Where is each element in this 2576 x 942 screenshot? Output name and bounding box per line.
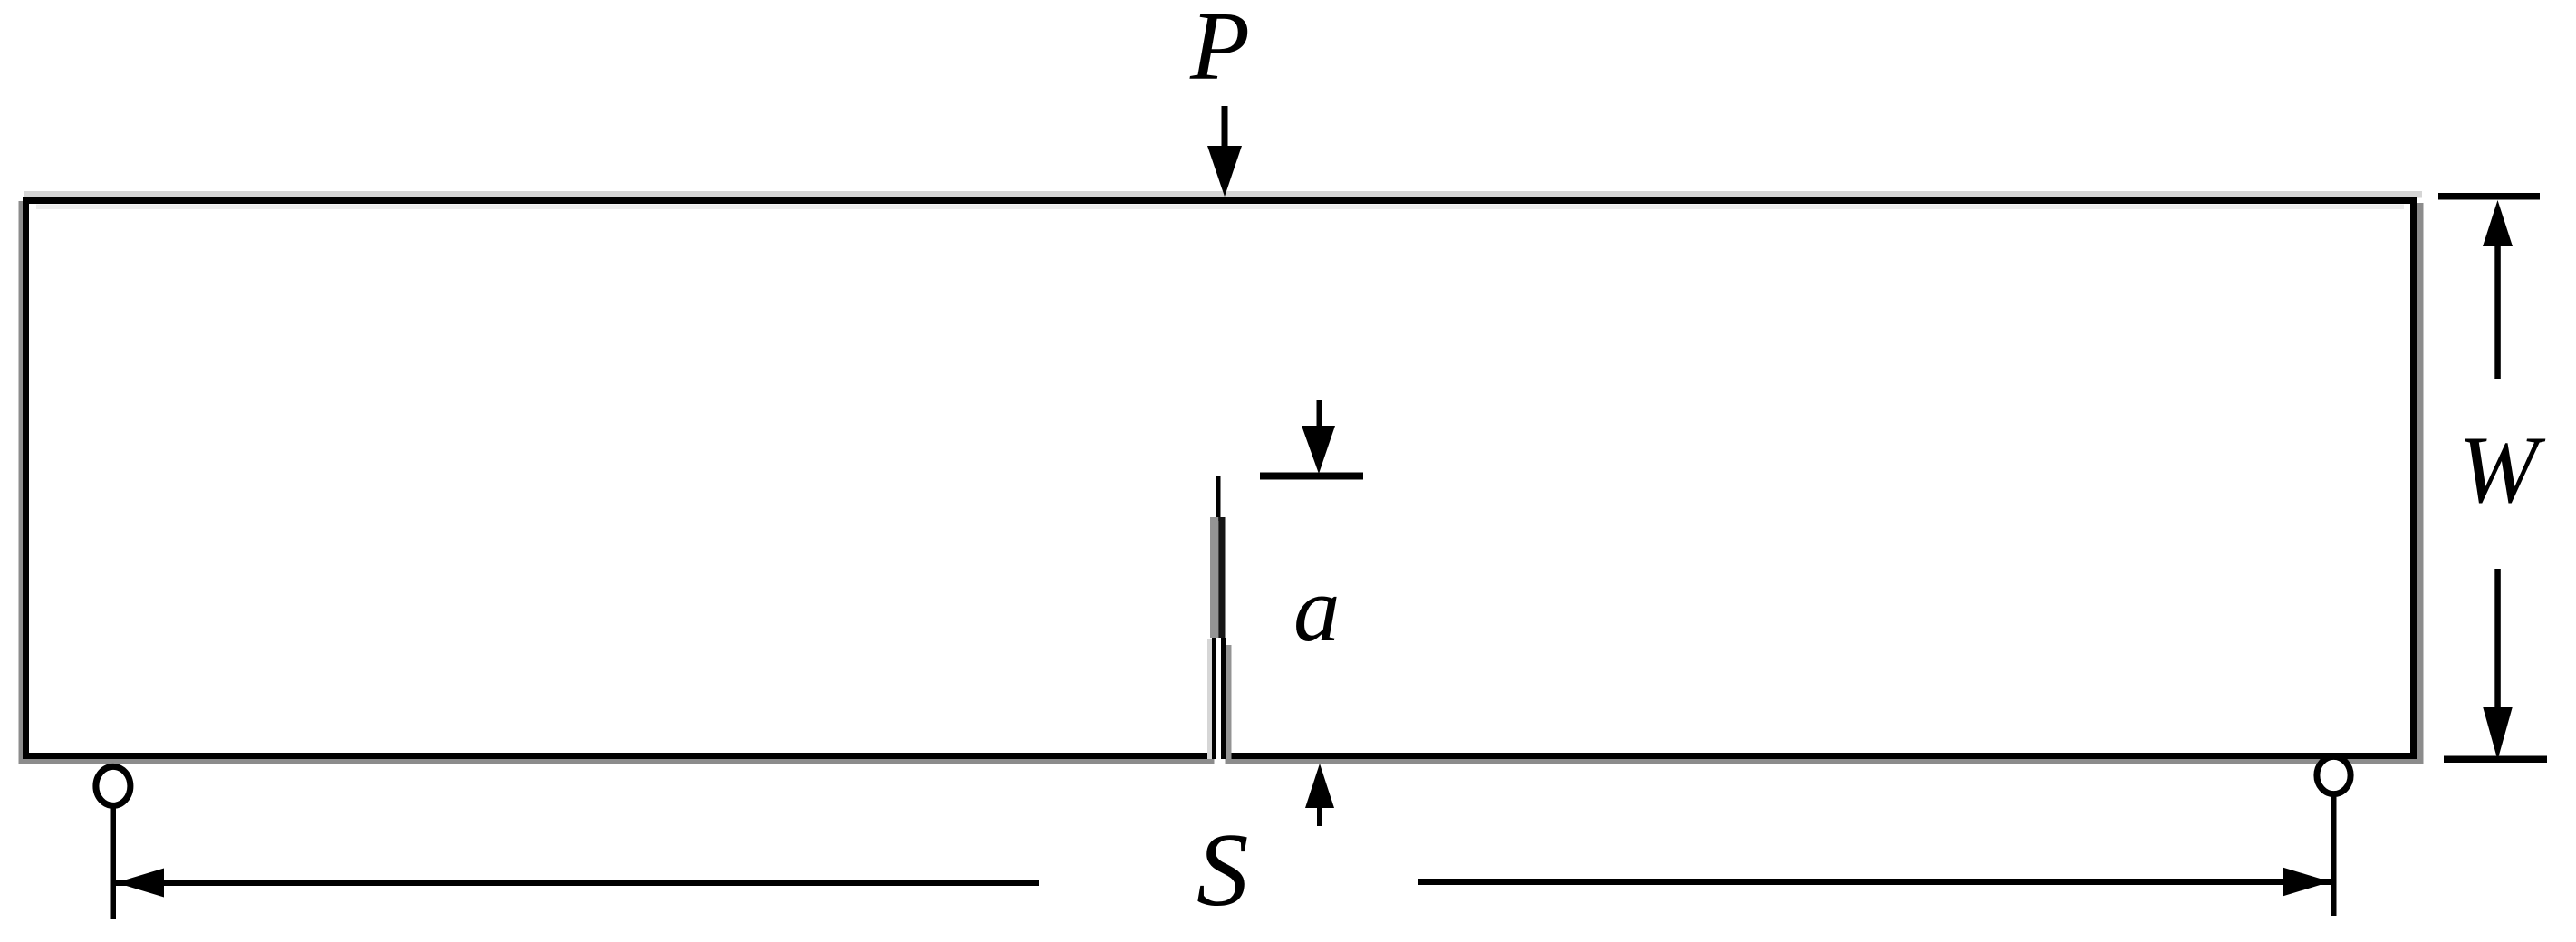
dimension a top arrow head: [1302, 426, 1335, 474]
notch left wall: [1212, 638, 1216, 759]
dimension a top tick: [1260, 473, 1363, 480]
beam bottom gray shadow: [24, 759, 2423, 764]
load arrow P stem: [1222, 106, 1228, 154]
span S left arrow head: [116, 869, 164, 898]
svg-text:W: W: [2458, 417, 2546, 523]
notch lower gray right band: [1226, 645, 1232, 759]
left support extension line: [111, 807, 117, 919]
svg-text:P: P: [1189, 0, 1250, 101]
load arrow P head: [1207, 146, 1242, 197]
beam left gray shadow: [19, 201, 26, 764]
notch lower light-gray left band: [1207, 639, 1212, 759]
width W top stem: [2494, 237, 2501, 379]
beam top light-gray band: [24, 191, 2422, 198]
right support extension line: [2331, 797, 2337, 916]
left support roller: [96, 766, 130, 805]
notch right wall: [1221, 638, 1226, 759]
crack mid dark core: [1218, 517, 1225, 638]
width W top arrow head: [2483, 200, 2513, 246]
span S right arrow head: [2283, 868, 2331, 897]
span S left dimension line: [116, 880, 1039, 886]
width W bottom tick: [2444, 756, 2547, 764]
width W top tick: [2438, 193, 2540, 200]
beam rectangle: [26, 201, 2414, 756]
beam inner faint line: [36, 205, 2404, 210]
dimension a bottom arrow stem: [1317, 803, 1322, 826]
width W bottom stem: [2494, 569, 2501, 714]
width W bottom arrow head: [2483, 706, 2513, 760]
span S right dimension line: [1418, 879, 2331, 885]
notch slit white gap in bottom border: [1215, 751, 1226, 764]
crack mid gray halo: [1210, 517, 1218, 638]
dimension a top arrow stem: [1317, 400, 1322, 432]
crack sharp tip segment: [1216, 476, 1221, 521]
beam right gray shadow: [2417, 203, 2424, 764]
svg-text:S: S: [1197, 812, 1249, 928]
svg-text:a: a: [1293, 558, 1341, 661]
right support roller: [2317, 756, 2350, 793]
dimension a bottom arrow head: [1305, 764, 1334, 808]
